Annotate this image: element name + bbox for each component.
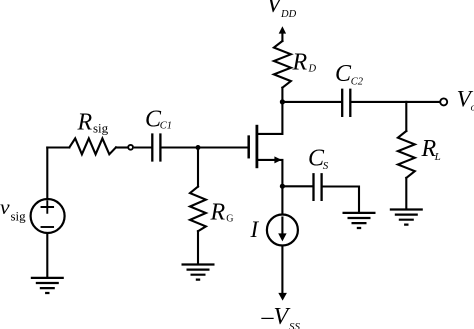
svg-text:G: G	[226, 214, 233, 225]
svg-text:SS: SS	[289, 321, 301, 329]
svg-text:DD: DD	[280, 9, 297, 20]
svg-text:L: L	[434, 151, 441, 163]
svg-text:v: v	[0, 195, 10, 219]
svg-text:o: o	[471, 103, 474, 114]
svg-text:R: R	[292, 50, 308, 76]
svg-text:D: D	[308, 64, 317, 75]
svg-text:R: R	[210, 199, 226, 225]
svg-text:R: R	[77, 110, 93, 136]
svg-text:S: S	[323, 160, 329, 172]
svg-text:I: I	[250, 217, 260, 242]
svg-text:sig: sig	[93, 121, 109, 136]
svg-text:C2: C2	[351, 77, 364, 88]
svg-text:C: C	[335, 61, 352, 87]
svg-text:C1: C1	[160, 121, 172, 132]
svg-text:sig: sig	[11, 209, 27, 224]
svg-text:–V: –V	[261, 304, 291, 329]
